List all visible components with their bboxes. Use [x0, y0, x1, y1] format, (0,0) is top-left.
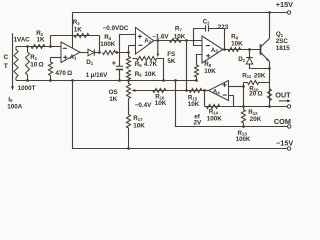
svg-text:100K: 100K	[236, 136, 251, 143]
node R4/A2- junction	[127, 51, 130, 54]
wire C2 right riser	[209, 29, 225, 50]
svg-text:10K: 10K	[231, 41, 243, 48]
svg-text:R3: R3	[73, 19, 81, 26]
label 1000T	[18, 85, 36, 92]
svg-text:20K: 20K	[254, 72, 266, 79]
svg-text:2SC: 2SC	[276, 38, 289, 45]
resistor R14 100K	[206, 105, 220, 109]
label R3 1K	[74, 26, 83, 33]
node R17 bottom	[127, 147, 130, 150]
node FS bottom	[162, 79, 165, 82]
svg-text:R14: R14	[209, 109, 219, 116]
wire A1 + input	[51, 57, 62, 59]
resistor R7 10K	[170, 39, 182, 43]
potentiometer FS wiper arrow	[157, 41, 160, 58]
label R16	[155, 94, 165, 101]
svg-text:470 Ω: 470 Ω	[55, 70, 72, 77]
svg-text:1K: 1K	[74, 26, 83, 33]
wire A2 output row	[154, 40, 202, 42]
wire A4 - input jog	[229, 96, 234, 107]
wire A2 - input	[129, 45, 136, 47]
svg-text:2V: 2V	[194, 119, 203, 126]
potentiometer FS 5K body	[133, 57, 157, 61]
svg-text:−1.6V: −1.6V	[152, 33, 169, 40]
label R17	[133, 115, 143, 122]
wire A4 output	[204, 90, 209, 92]
node R12 bottom	[242, 125, 245, 128]
label R7 10K	[174, 33, 186, 40]
node R10 bottom	[268, 105, 271, 108]
svg-text:1K: 1K	[37, 36, 46, 43]
label R9	[231, 33, 239, 40]
label R17 10K	[133, 122, 145, 129]
wire A1 feedback riser	[50, 36, 52, 47]
svg-text:10K: 10K	[155, 100, 167, 107]
svg-text:Q1: Q1	[276, 31, 284, 38]
resistor R16 10K	[153, 89, 166, 93]
label -15V	[276, 138, 293, 147]
CT primary conductor with current arrow	[11, 33, 14, 90]
label 470 ohm	[55, 70, 72, 77]
node 470 bottom	[49, 79, 52, 82]
wire FS right lead	[157, 59, 164, 81]
capacitor C1 1u/16V electrolytic	[112, 61, 123, 80]
label R12 20K	[250, 116, 262, 123]
resistor R2 1K	[31, 45, 45, 49]
node CT bottom / R1 junction	[26, 79, 29, 82]
label FS 5K	[167, 51, 176, 65]
op-amp A3	[202, 36, 223, 63]
resistor R17 10K	[127, 115, 131, 149]
label R11 20K	[242, 72, 266, 79]
node A4 + junction	[242, 85, 245, 88]
label R13 100K	[236, 136, 251, 143]
node A1 inverting input	[49, 45, 52, 48]
label R10	[249, 85, 259, 92]
node base/D2 junction	[248, 48, 251, 51]
resistor R6 10K	[127, 70, 131, 81]
svg-text:1815: 1815	[276, 45, 291, 52]
resistor R15 10K	[189, 89, 202, 93]
label C2	[203, 18, 211, 25]
svg-text:R7: R7	[175, 26, 183, 33]
diode D1	[88, 49, 100, 56]
wire A1 feedback row	[51, 35, 100, 37]
wire ef riser and COM row	[176, 81, 288, 127]
svg-text:R12: R12	[248, 109, 258, 116]
svg-text:10 Ω: 10 Ω	[30, 62, 43, 69]
label R16 10K	[155, 100, 167, 107]
wire input row to A1	[16, 46, 61, 48]
svg-text:20K: 20K	[250, 116, 262, 123]
label R14	[209, 109, 219, 116]
label R13	[238, 130, 248, 137]
label -0.4V	[135, 102, 152, 109]
svg-text:5K: 5K	[167, 58, 176, 65]
diode D2	[246, 50, 269, 69]
wire common drop to -15V rail	[73, 81, 288, 149]
label OUT arrow	[279, 99, 291, 102]
svg-text:1K: 1K	[109, 96, 118, 103]
svg-text:R17: R17	[133, 115, 143, 122]
wire analog common row	[16, 80, 197, 82]
resistor R8 10K	[195, 65, 199, 81]
node C2 junction	[223, 48, 226, 51]
resistor R3 1K	[74, 34, 89, 38]
terminal COM	[288, 125, 291, 128]
wire R11 left riser	[243, 83, 245, 107]
svg-text:223: 223	[218, 24, 229, 31]
wire R16-R15 row	[133, 90, 205, 92]
svg-text:R5: R5	[135, 61, 143, 68]
node R12 top junction	[242, 105, 245, 108]
svg-text:20 Ω: 20 Ω	[249, 91, 262, 98]
svg-text:100A: 100A	[7, 103, 23, 110]
wire C2 left riser	[194, 29, 206, 46]
node R7/R16-riser junction	[185, 39, 188, 42]
resistor R5 4.7K	[127, 46, 131, 69]
label R4 100K	[100, 41, 116, 48]
svg-text:R9: R9	[231, 33, 239, 40]
svg-text:R6: R6	[135, 71, 143, 78]
label -0.9VDC	[103, 25, 129, 32]
terminal -15V	[287, 147, 290, 150]
terminal OUT	[287, 105, 290, 108]
node A4 output	[203, 89, 206, 92]
svg-text:10K: 10K	[188, 101, 200, 108]
svg-text:R11: R11	[242, 72, 252, 79]
op-amp A2	[136, 27, 154, 54]
svg-text:C: C	[3, 54, 8, 61]
svg-text:+15V: +15V	[276, 0, 293, 9]
resistor R4 100K	[103, 51, 129, 55]
node C1 bottom	[118, 79, 121, 82]
resistor 470 ohm	[49, 58, 53, 81]
svg-text:4.7K: 4.7K	[144, 61, 158, 68]
wire feedback to output node	[99, 36, 101, 53]
terminal +15V	[287, 11, 290, 14]
node R6 bottom	[127, 79, 130, 82]
label D1	[86, 59, 94, 66]
label R6 10K	[135, 71, 157, 78]
resistor R1 10 ohm	[26, 47, 30, 81]
node D2/emitter junction	[268, 67, 271, 70]
svg-text:1 μ/16V: 1 μ/16V	[86, 72, 108, 79]
wire A1 power tap from +15V	[72, 13, 74, 48]
svg-text:R8: R8	[204, 61, 212, 68]
svg-text:COM: COM	[274, 117, 291, 126]
node -0.9VDC	[98, 51, 101, 54]
label ef 2V	[194, 114, 203, 127]
label R1 10ohm	[30, 54, 43, 69]
resistor R10 20 ohm	[268, 89, 272, 101]
wire A1 output	[80, 52, 88, 54]
capacitor C2 223	[206, 25, 209, 31]
svg-text:10K: 10K	[133, 122, 145, 129]
svg-text:1000T: 1000T	[18, 85, 36, 92]
svg-text:R1: R1	[30, 54, 38, 61]
wire riser R7row to R15row	[186, 41, 188, 91]
svg-text:C2: C2	[203, 18, 211, 25]
svg-text:I0: I0	[8, 96, 13, 103]
label R10 20ohm	[249, 91, 262, 98]
label Q1 1815	[276, 45, 291, 52]
svg-text:10K: 10K	[174, 33, 186, 40]
wire Q1 collector riser	[269, 13, 271, 39]
wire OUT row	[205, 106, 288, 108]
node ef riser junction	[174, 79, 177, 82]
label R15 10K	[188, 101, 200, 108]
op-amp A4 (points left)	[209, 81, 229, 101]
svg-text:100K: 100K	[100, 41, 116, 48]
wire A3 output to base	[223, 49, 261, 51]
label R4	[104, 34, 112, 41]
potentiometer OS wiper arrow	[131, 89, 135, 92]
label R2	[36, 30, 44, 37]
label OS 1K	[109, 89, 118, 103]
label 1VAC	[14, 36, 31, 43]
label R8 10K	[204, 68, 216, 75]
resistor R12 20K	[242, 107, 246, 127]
label C1 1u/16V	[86, 72, 108, 79]
node CT top / R1 junction	[26, 45, 29, 48]
label I0 100A	[7, 96, 23, 110]
label COM	[274, 117, 291, 126]
potentiometer OS 1K	[127, 81, 131, 99]
wire A3 + input	[197, 55, 203, 66]
label R12	[248, 109, 258, 116]
svg-text:D2: D2	[238, 56, 246, 63]
label OUT	[275, 91, 291, 100]
svg-text:A4: A4	[213, 89, 220, 96]
wire A4 output to R14 riser	[204, 91, 206, 107]
svg-text:−0.9VDC: −0.9VDC	[103, 25, 129, 32]
wire Q1 emitter riser	[269, 62, 271, 107]
label R2 1K	[37, 36, 46, 43]
resistor R11 20K	[244, 81, 270, 85]
svg-text:1VAC: 1VAC	[14, 36, 31, 43]
node collector junction on +15V rail	[268, 11, 271, 14]
CT secondary winding	[14, 47, 18, 81]
wire A4 + input	[229, 86, 244, 88]
svg-text:10K: 10K	[204, 68, 216, 75]
wire +15V top rail	[73, 12, 288, 14]
svg-text:10K: 10K	[144, 71, 156, 78]
svg-text:100K: 100K	[207, 116, 223, 123]
node 470 junction2	[71, 79, 74, 82]
svg-text:A3: A3	[211, 47, 218, 54]
svg-text:−0.4V: −0.4V	[135, 102, 152, 109]
node R4 right	[115, 51, 118, 54]
node FS wiper top	[156, 39, 159, 42]
label R8	[204, 61, 212, 68]
label R15	[188, 95, 198, 102]
label R7	[175, 26, 183, 33]
wire OS to R17	[128, 99, 130, 115]
label -1.6V	[152, 33, 169, 40]
label C2 223	[218, 24, 229, 31]
svg-text:A1: A1	[70, 54, 77, 61]
label D2	[238, 56, 246, 63]
label Q1 2SC	[276, 38, 289, 45]
label +15V	[276, 0, 293, 9]
svg-text:OUT: OUT	[275, 91, 291, 100]
svg-text:A2: A2	[144, 37, 151, 44]
wire A2 + input with riser	[120, 35, 136, 67]
label Q1	[276, 31, 284, 38]
label R14 100K	[207, 116, 223, 123]
node R8 bottom	[195, 79, 198, 82]
op-amp A1	[61, 42, 80, 63]
transistor Q1 2SC1815	[261, 39, 270, 62]
label C T of CT	[3, 54, 8, 70]
label R9 10K	[231, 41, 243, 48]
svg-text:D1: D1	[86, 59, 94, 66]
label R5 4.7K	[135, 61, 158, 68]
resistor R9 10K	[228, 48, 241, 52]
svg-text:−15V: −15V	[276, 138, 293, 147]
label R3	[73, 19, 81, 26]
node R16/R7-riser junction	[185, 89, 188, 92]
